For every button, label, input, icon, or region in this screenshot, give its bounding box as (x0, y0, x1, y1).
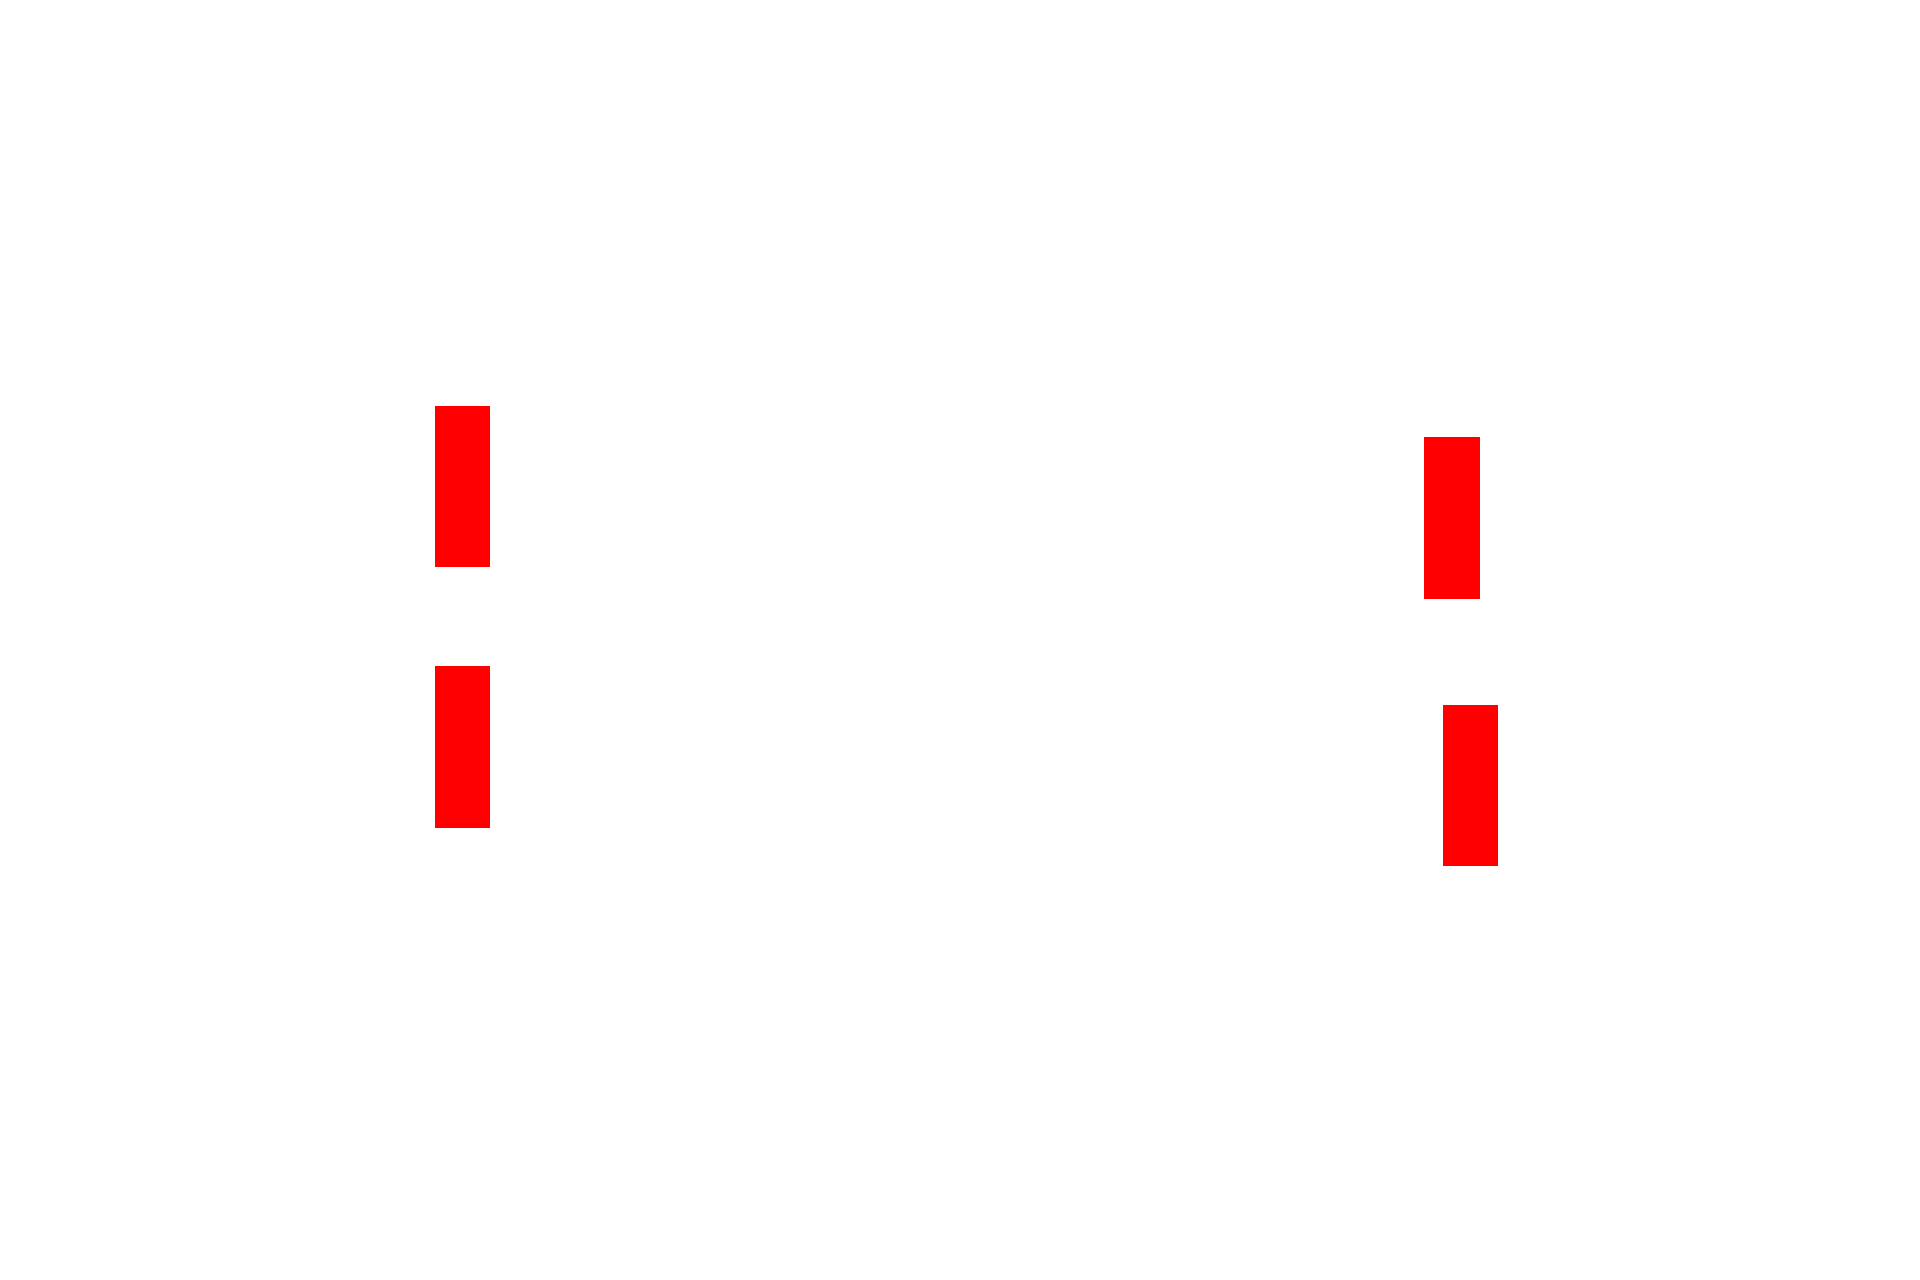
red bar 1 (top-left) (435, 406, 490, 567)
red bar 2 (bottom-left) (435, 666, 490, 828)
red bar 3 (top-right) (1424, 437, 1480, 599)
red bar 4 (bottom-right) (1443, 705, 1498, 866)
